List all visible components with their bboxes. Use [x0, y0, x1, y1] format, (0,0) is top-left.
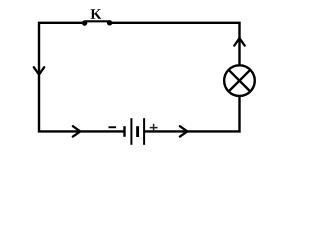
switch contact dot right: [107, 20, 112, 25]
battery cell: long plate 2 (positive): [143, 118, 145, 145]
lamp L1 circle: [224, 65, 255, 96]
label K: [91, 9, 102, 18]
current arrow down (left wire): [34, 67, 44, 74]
wire: top-left + left side + bottom-left loop: [39, 23, 124, 132]
switch contact dot left: [82, 20, 87, 25]
battery cell: short plate 2: [136, 126, 139, 137]
lamp L1 cross: [229, 70, 251, 92]
battery cell: short plate 1 (negative): [123, 126, 125, 137]
wire: top-right + right side down to lamp: [110, 23, 240, 65]
battery cell: long plate 1: [130, 118, 132, 145]
wire: lamp bottom to bottom-right corner to battery +: [145, 97, 240, 132]
label minus: [109, 126, 117, 128]
current arrow right (bottom-right wire): [180, 126, 187, 136]
current arrow right (bottom-left wire): [73, 126, 80, 136]
current arrow up (right wire): [234, 38, 244, 45]
label plus: [150, 124, 158, 132]
switch K blade: [85, 20, 110, 22]
